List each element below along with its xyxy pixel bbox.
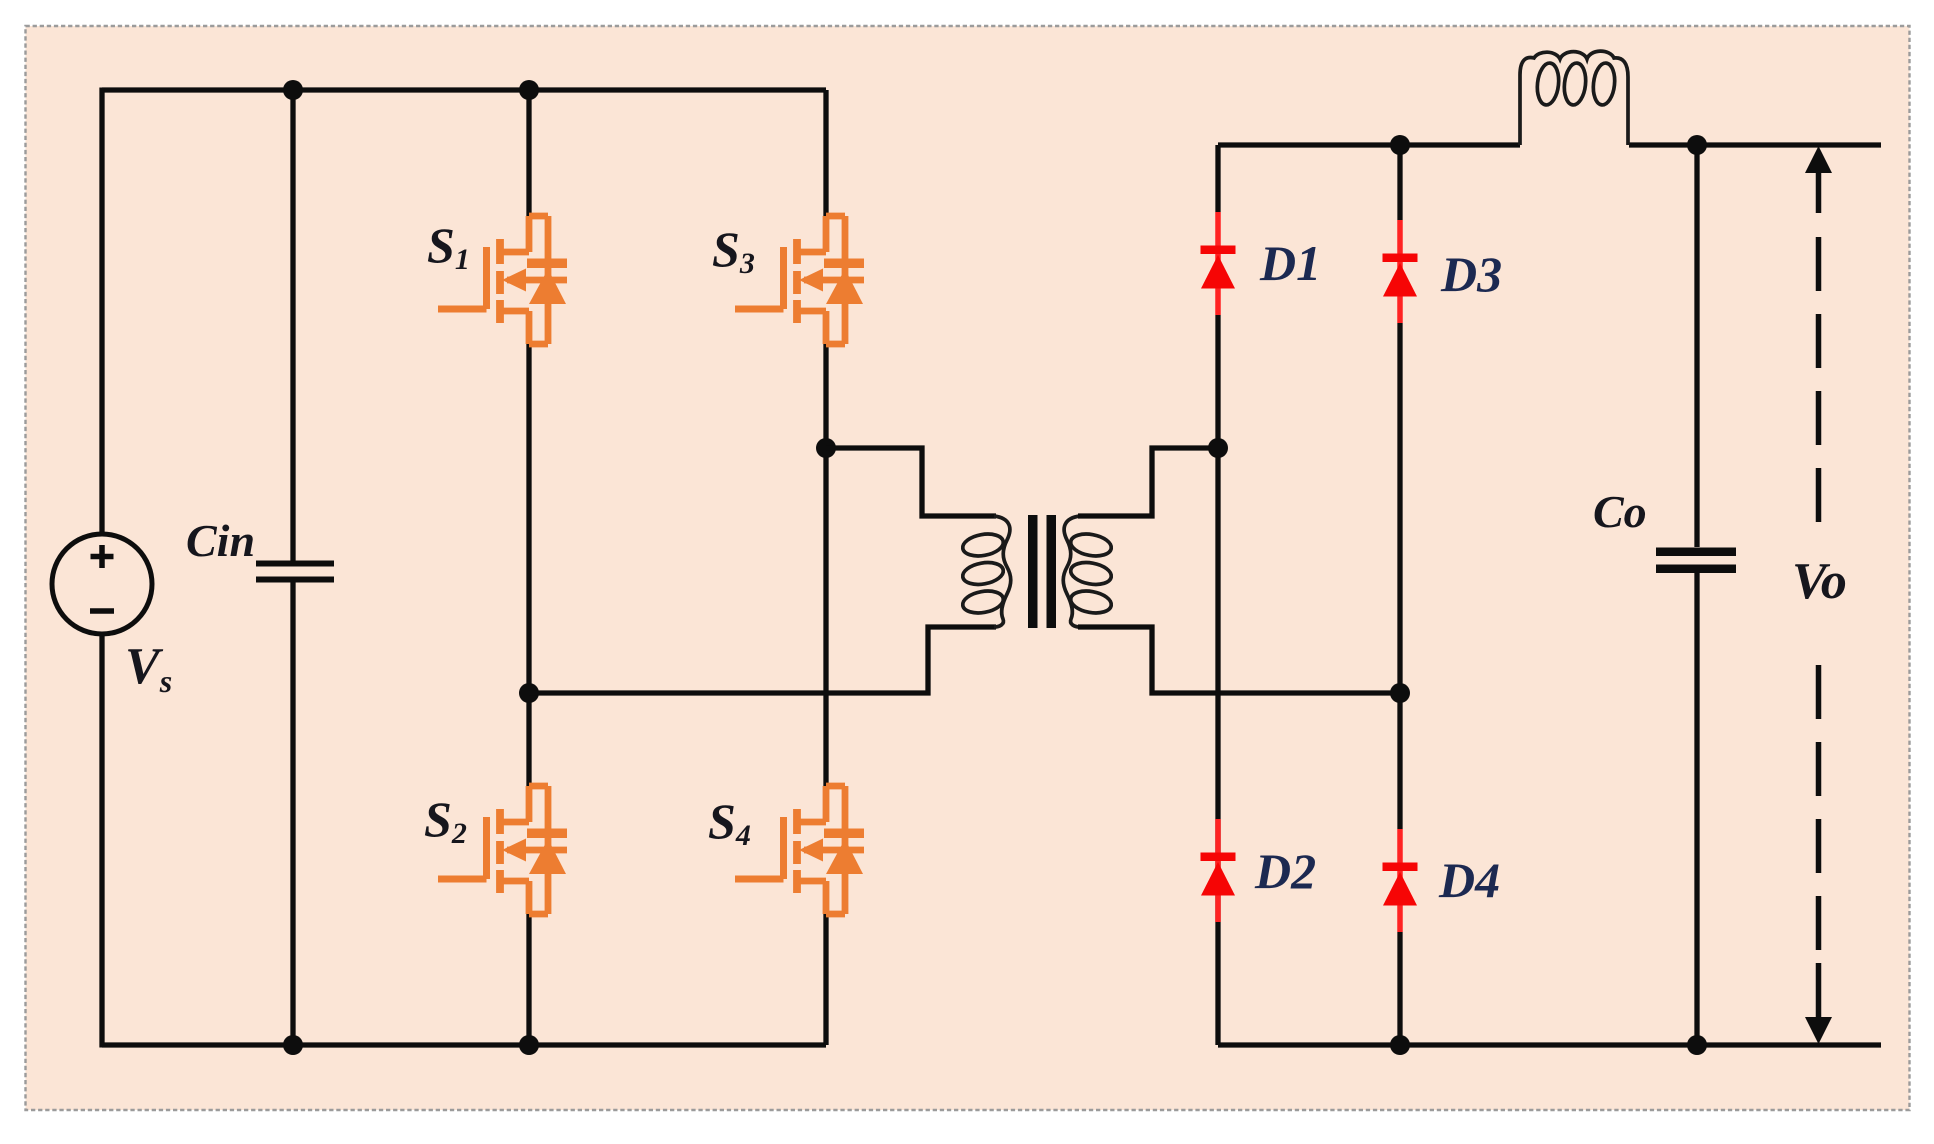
svg-text:D1: D1 — [1259, 235, 1321, 291]
node output top — [1687, 135, 1707, 155]
Vo arrow head down — [1805, 1017, 1832, 1044]
node secondary top — [1208, 438, 1228, 458]
Vo arrow head up — [1805, 146, 1832, 173]
svg-text:D4: D4 — [1438, 852, 1500, 908]
inductor Lo — [1520, 51, 1628, 145]
wire rectifier bottom rail — [1218, 1042, 1881, 1047]
wire Co leg — [1694, 145, 1699, 1045]
wire secondary bottom — [1078, 627, 1400, 693]
Vo arrow dashed line upper — [1816, 170, 1822, 213]
node top rail Cin — [283, 80, 303, 100]
diode D1 — [1201, 212, 1236, 315]
wire Cin leg — [290, 90, 295, 1045]
node bottom rail Cin — [283, 1035, 303, 1055]
wire top rail — [102, 87, 826, 92]
wire left leg lower — [102, 634, 826, 1048]
node bridge midpoint right — [816, 438, 836, 458]
node rectifier bottom rail D4 — [1390, 1035, 1410, 1055]
wire rectifier top rail — [1218, 142, 1881, 147]
node bottom rail S2 — [519, 1035, 539, 1055]
wire D3/D4 leg — [1397, 145, 1402, 1045]
wire secondary top — [1078, 448, 1218, 516]
wire primary top — [826, 448, 996, 516]
node bridge midpoint left — [519, 683, 539, 703]
node secondary bottom — [1390, 683, 1410, 703]
transformer primary coil — [961, 516, 1011, 627]
node rectifier top rail D3 — [1390, 135, 1410, 155]
voltage source Vs — [52, 534, 152, 634]
transformer core — [1028, 515, 1056, 628]
transformer secondary coil — [1063, 516, 1113, 627]
diode D3 — [1383, 220, 1418, 323]
svg-text:Co: Co — [1593, 486, 1647, 537]
wire D1/D2 leg — [1215, 145, 1220, 1045]
svg-text:D2: D2 — [1254, 843, 1316, 899]
transistor S1 — [438, 216, 567, 344]
diode D2 — [1201, 819, 1236, 922]
Vo arrow dashed line lower — [1816, 665, 1822, 951]
diode D4 — [1383, 829, 1418, 932]
capacitor Cin — [256, 561, 334, 583]
capacitor Co — [1656, 548, 1736, 574]
wire primary bottom — [529, 627, 996, 693]
node output bottom — [1687, 1035, 1707, 1055]
wire S1/S2 leg — [526, 90, 531, 1045]
svg-text:Cin: Cin — [186, 515, 255, 566]
transistor S4 — [735, 786, 864, 914]
svg-text:D3: D3 — [1440, 246, 1502, 302]
transistor S2 — [438, 786, 567, 914]
svg-text:Vo: Vo — [1792, 553, 1847, 610]
transistor S3 — [735, 216, 864, 344]
node top rail S1 — [519, 80, 539, 100]
wire S3/S4 leg — [823, 90, 828, 1045]
wire left leg upper — [99, 88, 104, 535]
